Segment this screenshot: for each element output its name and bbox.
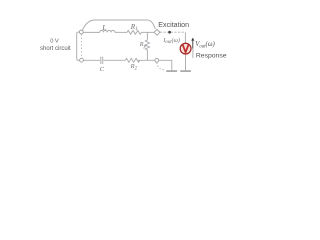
dashed link from node C to ground G1 xyxy=(157,63,165,70)
wire: probe drop to voltmeter xyxy=(184,32,186,43)
node B (bottom left) xyxy=(80,58,84,62)
svg-text:Response: Response xyxy=(196,53,227,60)
ground G2 xyxy=(180,70,191,71)
resistor Rp vertical branch xyxy=(145,32,149,60)
svg-text:R2: R2 xyxy=(130,63,138,71)
voltmeter V1 (red instrument circle) xyxy=(180,43,191,54)
resistor R2 xyxy=(125,58,139,62)
capacitor C xyxy=(101,57,103,64)
svg-text:Vout(ω): Vout(ω) xyxy=(195,41,215,49)
wire: between inductor and resistor R1 xyxy=(115,31,127,33)
excitation node diamond xyxy=(154,29,160,35)
svg-text:0 V: 0 V xyxy=(50,38,59,44)
ground G1 xyxy=(166,70,177,71)
svg-text:Iout(ω): Iout(ω) xyxy=(162,37,180,45)
svg-text:Excitation: Excitation xyxy=(158,21,189,29)
wire: bottom rail left of capacitor xyxy=(83,59,100,61)
wire: bottom node to ground corner xyxy=(159,60,172,70)
V_out response arrow xyxy=(192,39,194,48)
svg-text:L: L xyxy=(101,23,106,32)
wire: series branch left segment xyxy=(83,31,100,33)
junction dot on probe wire xyxy=(168,31,171,34)
voltmeter V1 red V glyph xyxy=(183,45,189,53)
wire: top rail from node A to excitation diamond xyxy=(82,20,155,31)
dashed probe wire from diamond to response branch xyxy=(160,31,185,33)
wire: bottom rail capacitor to R2 xyxy=(103,59,125,61)
node A (top left) xyxy=(79,30,83,34)
node C (bottom mid circle) xyxy=(155,58,159,62)
svg-text:Rp: Rp xyxy=(139,41,147,49)
wire: voltmeter to ground xyxy=(185,54,187,70)
dashed node link between node A and node B xyxy=(80,34,82,58)
resistor R1 xyxy=(127,30,141,34)
wire: R2 to bottom node circle xyxy=(138,59,155,61)
wire: left short-circuit loop xyxy=(77,32,80,60)
inductor L xyxy=(100,30,115,32)
svg-text:R1: R1 xyxy=(130,23,138,32)
svg-text:short circuit: short circuit xyxy=(40,46,71,52)
wire: R1 to excitation diamond with Rp tap xyxy=(142,31,155,33)
svg-text:C: C xyxy=(100,66,105,73)
